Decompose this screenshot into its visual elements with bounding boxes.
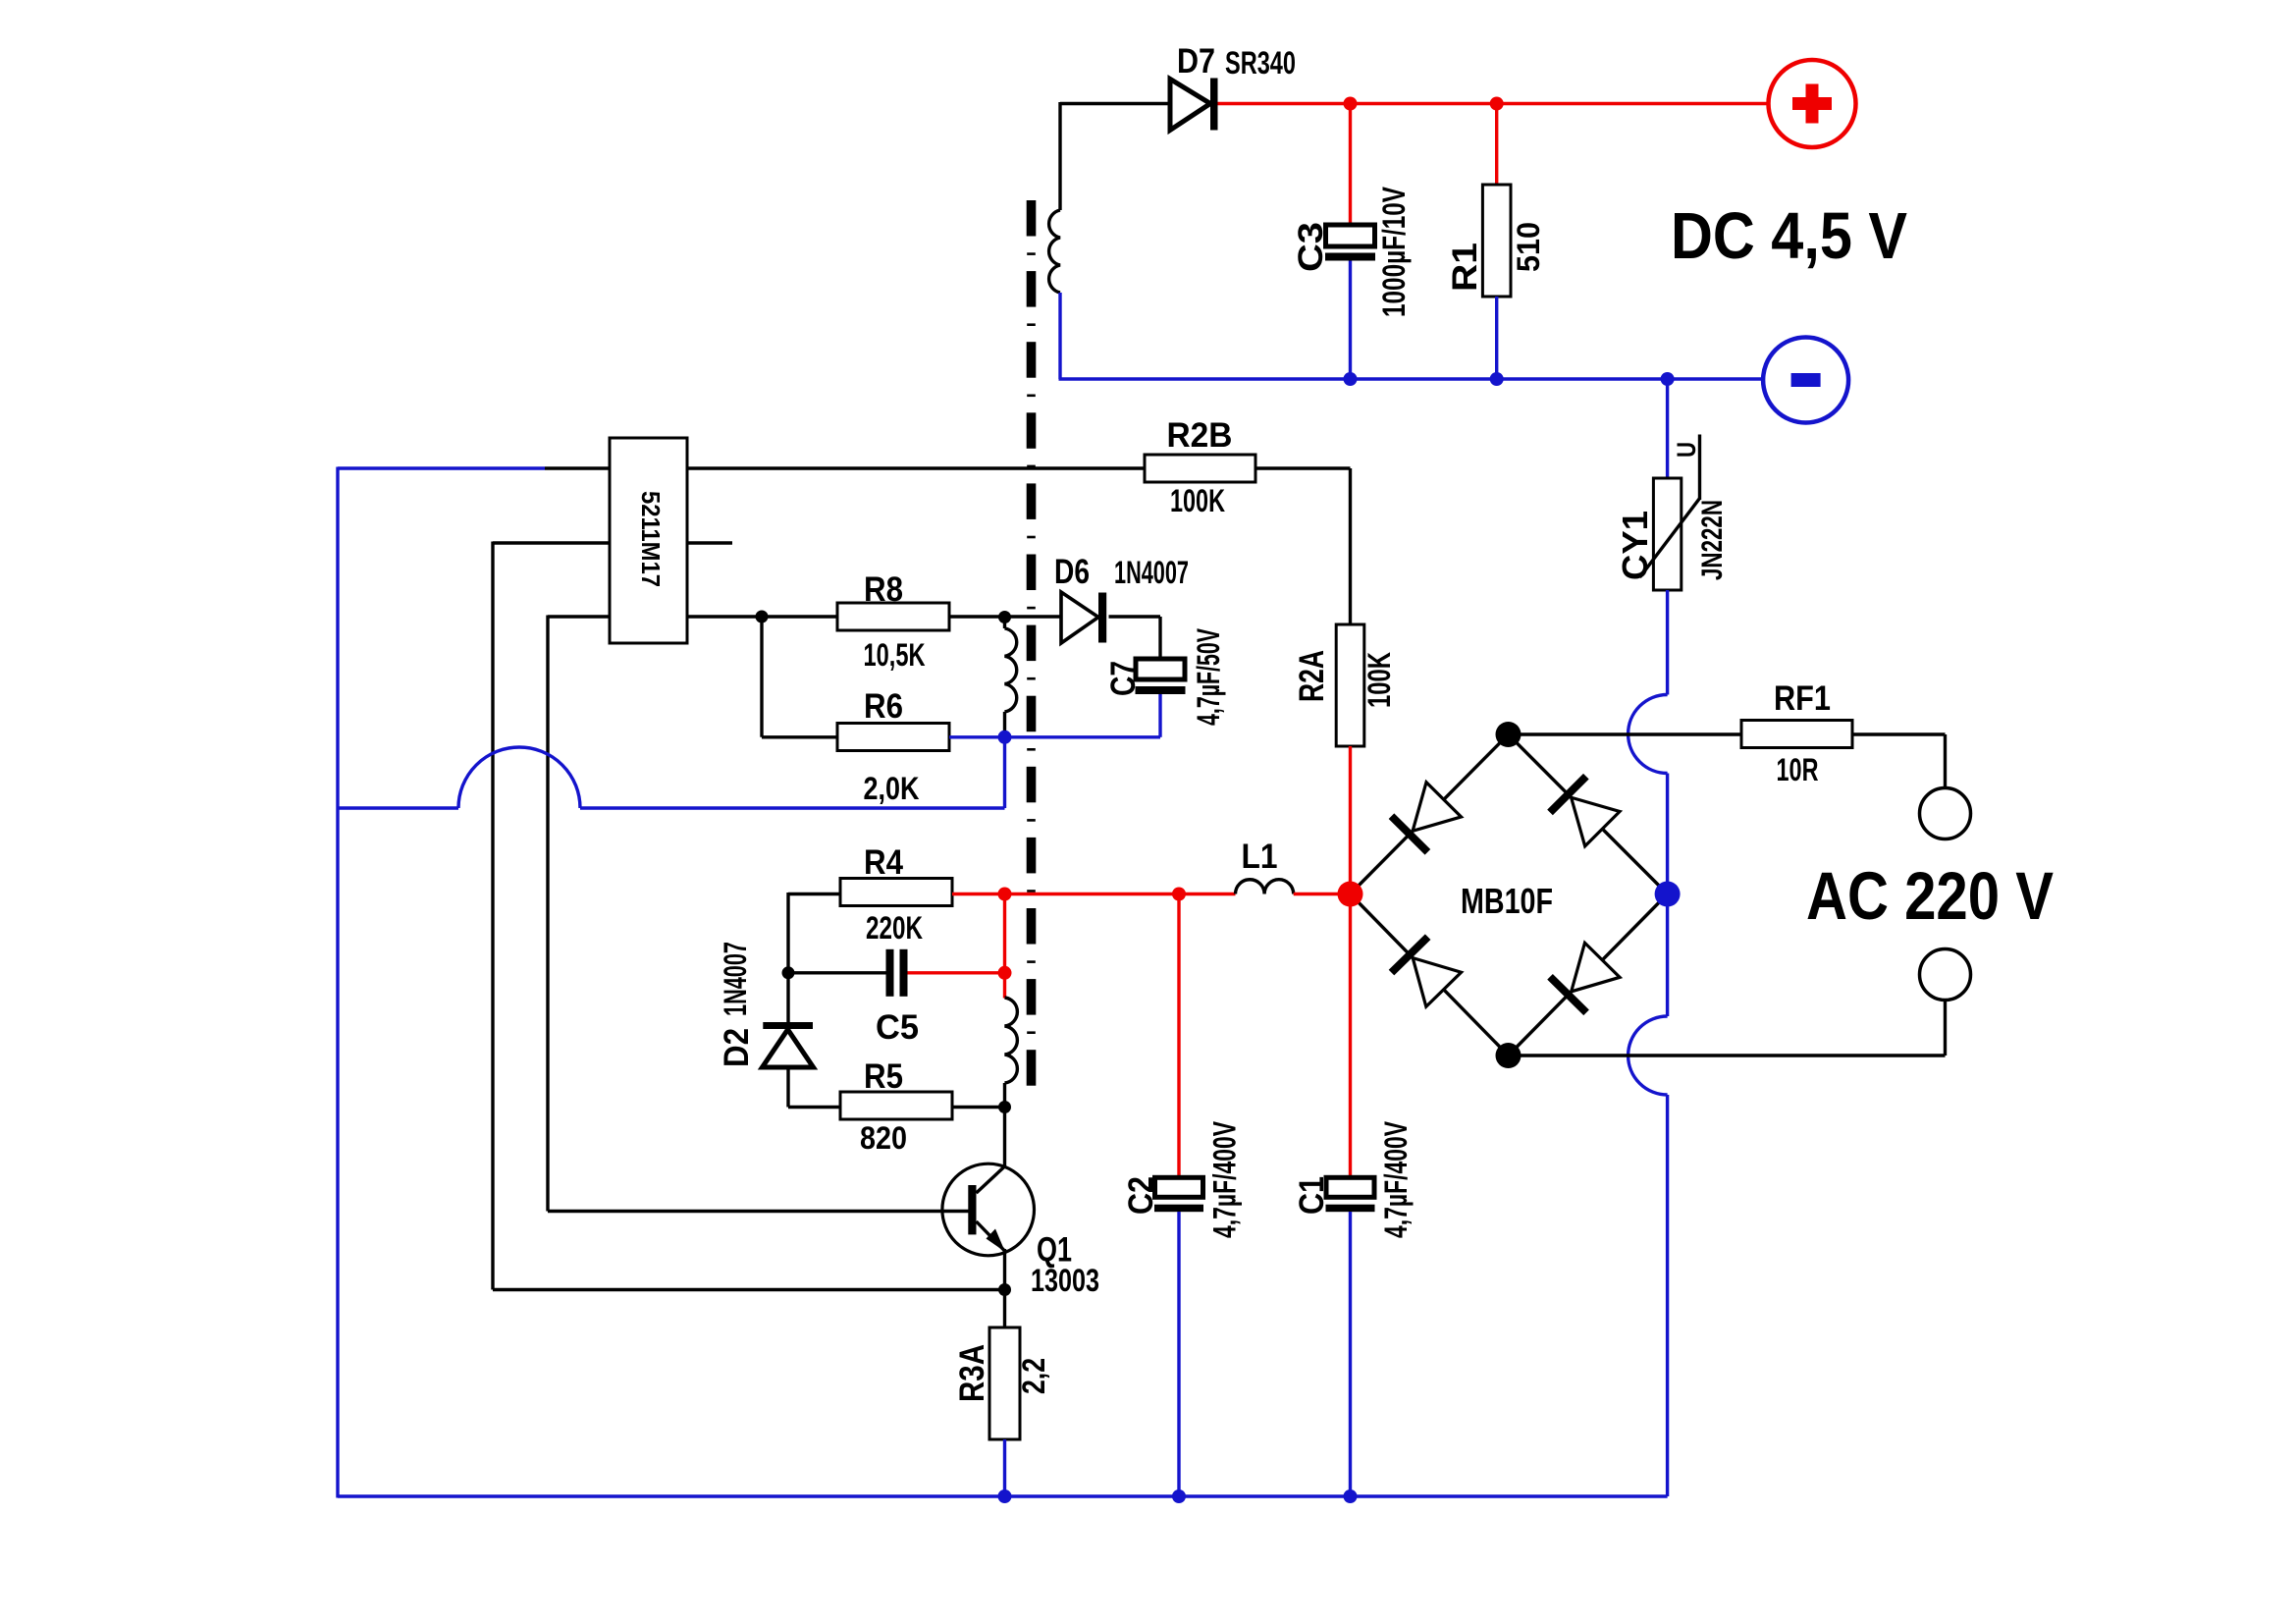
- value SR340: [1225, 45, 1296, 81]
- wire: RF1 to AC upper terminal (black): [1852, 734, 1946, 788]
- value 4,7µF/400V: [1378, 1121, 1414, 1238]
- label R2B: [1167, 416, 1233, 455]
- svg-text:L1: L1: [1242, 838, 1278, 876]
- bridge diode (top-left, AC top to + left): [1391, 783, 1461, 852]
- svg-text:220K: 220K: [866, 910, 923, 946]
- wire: left bus vertical (blue): [336, 467, 339, 1498]
- label R3A: [953, 1344, 991, 1402]
- junction: primary bottom / collector node (black): [998, 1101, 1011, 1113]
- capacitor C7: [1136, 659, 1186, 694]
- label Q1: [1037, 1231, 1072, 1270]
- wire: IC pin 3 left to base loop (black): [548, 616, 610, 1212]
- junction: bridge right corner (-HV node, blue): [1655, 882, 1681, 907]
- svg-text:10R: 10R: [1777, 752, 1819, 787]
- svg-text:C7: C7: [1104, 661, 1143, 696]
- junction: R8 left node (black): [756, 611, 769, 623]
- wire: C2 node down to C2 (red): [1177, 894, 1180, 1179]
- wire: tap to primary winding (red): [1003, 973, 1006, 999]
- wire: red row to tap (red): [1003, 894, 1006, 973]
- svg-text:R3A: R3A: [953, 1344, 991, 1402]
- resistor R8: [837, 603, 949, 630]
- svg-text:13003: 13003: [1031, 1263, 1099, 1298]
- junction: minus bus / C3 (blue): [1344, 372, 1358, 386]
- wire: R2A to bridge left corner (red): [1349, 746, 1352, 894]
- svg-text:4,7µF/50V: 4,7µF/50V: [1191, 628, 1226, 726]
- wire: R8 to auxiliary winding node (black): [949, 615, 1005, 618]
- label AC 220 V: [1806, 858, 2054, 934]
- svg-text:R6: R6: [864, 687, 903, 726]
- junction: D2/C5 node (black): [782, 966, 795, 979]
- resistor R2A: [1336, 624, 1364, 746]
- junction: R6/C7/aux winding node (blue): [998, 731, 1012, 744]
- value 820: [860, 1120, 907, 1156]
- svg-text:D7: D7: [1177, 42, 1215, 81]
- svg-text:5211M17: 5211M17: [636, 491, 666, 587]
- label R4: [864, 843, 903, 882]
- svg-text:R1: R1: [1446, 243, 1484, 292]
- resistor RF1: [1741, 721, 1852, 748]
- junction: R1 top node (red): [1490, 97, 1504, 111]
- wire: +row to R1 (red): [1495, 104, 1498, 187]
- wire: +row to C3 (red): [1349, 104, 1352, 227]
- wire: R4 to primary winding node (red): [952, 893, 1005, 895]
- label U: [1672, 442, 1701, 458]
- wire: D7 cathode to + terminal (red): [1218, 102, 1770, 105]
- value 1N4007: [718, 942, 753, 1016]
- junction: bottom bus / C2 (blue): [1172, 1489, 1186, 1503]
- label D2: [718, 1028, 756, 1067]
- wire: bottom bus (blue): [338, 1494, 1668, 1497]
- svg-text:R8: R8: [864, 570, 903, 609]
- svg-text:AC 220 V: AC 220 V: [1806, 858, 2054, 934]
- wire: left bus to IC pin 1 (blue then black): [338, 466, 610, 469]
- svg-text:100K: 100K: [1170, 483, 1225, 518]
- wire: bridge right corner down to bottom bus (blue, hops over AC wire): [1629, 894, 1668, 1497]
- label R5: [864, 1057, 903, 1096]
- wire: D2 to R5 (black): [788, 1106, 840, 1109]
- label R1: [1446, 243, 1484, 292]
- wire: bridge left corner down to C1 (red): [1349, 894, 1352, 1179]
- value 10,5K: [864, 637, 926, 673]
- value 510: [1511, 222, 1546, 272]
- capacitor C3: [1325, 225, 1375, 261]
- svg-text:1000µF/10V: 1000µF/10V: [1376, 187, 1412, 317]
- junction: bridge bottom corner (AC node): [1496, 1043, 1522, 1068]
- value 220K: [866, 910, 923, 946]
- label C7: [1104, 661, 1143, 696]
- label RF1: [1774, 679, 1831, 718]
- terminal: DC + output: [1769, 60, 1856, 147]
- junction: bottom bus / R3A (blue): [998, 1489, 1012, 1503]
- svg-text:MB10F: MB10F: [1461, 881, 1553, 921]
- resistor R2B: [1145, 455, 1255, 482]
- label C3: [1292, 222, 1330, 272]
- wire: emitter node to R3A (black): [1003, 1290, 1006, 1329]
- bridge diode (bottom-left, AC bottom to + left): [1391, 937, 1461, 1006]
- IC U1 5211M17 body: [610, 438, 687, 643]
- svg-text:C2: C2: [1122, 1176, 1160, 1215]
- wire: aux node down and left to bus (blue, hops over loops): [338, 737, 1005, 808]
- wire: IC pin 3 right to R8 (black): [687, 615, 837, 618]
- terminal: AC line lower: [1920, 949, 1971, 1001]
- label DC 4,5 V: [1671, 199, 1907, 273]
- capacitor C5: [886, 949, 908, 997]
- transformer T1 core (dash-dot isolation line): [1027, 200, 1037, 1086]
- wire: D6 cathode to C7 (black): [1109, 617, 1161, 660]
- label C2: [1122, 1176, 1160, 1215]
- wire: collector node to Q1 (black): [977, 1108, 1005, 1194]
- svg-text:C1: C1: [1293, 1176, 1331, 1215]
- bridge diode (bottom-right, - right to AC bottom): [1550, 943, 1620, 1012]
- label CY1: [1615, 511, 1655, 580]
- svg-text:510: 510: [1511, 222, 1546, 272]
- svg-text:2,0K: 2,0K: [864, 771, 920, 806]
- label L1: [1242, 838, 1278, 876]
- svg-text:100K: 100K: [1362, 652, 1397, 708]
- junction: primary top node (red): [998, 888, 1012, 901]
- resistor R3A: [989, 1327, 1020, 1439]
- svg-text:1N4007: 1N4007: [1114, 555, 1189, 590]
- resistor R4: [840, 879, 952, 906]
- diode D2: [763, 1022, 814, 1108]
- wire: AC lower terminal to bridge bottom corner (black): [1509, 1001, 1946, 1056]
- svg-text:820: 820: [860, 1120, 907, 1156]
- svg-text:C3: C3: [1292, 222, 1330, 272]
- label R2A: [1293, 650, 1331, 702]
- wire: node to C5 left plate (black): [788, 971, 886, 974]
- svg-text:DC 4,5 V: DC 4,5 V: [1671, 199, 1907, 273]
- svg-text:4,7µF/400V: 4,7µF/400V: [1207, 1121, 1243, 1238]
- wire: IC pin 2 left to emitter loop (black): [493, 542, 610, 1290]
- junction: minus bus / CY1 (blue): [1661, 372, 1675, 386]
- svg-text:D6: D6: [1054, 553, 1090, 591]
- label C1: [1293, 1176, 1331, 1215]
- terminal: AC line upper: [1920, 788, 1971, 839]
- label C5: [876, 1008, 919, 1047]
- value 4,7µF/400V: [1207, 1121, 1243, 1238]
- svg-text:2,2: 2,2: [1016, 1358, 1051, 1394]
- transistor Q1: [942, 1164, 1035, 1289]
- label MB10F: [1461, 881, 1553, 921]
- junction: emitter / R3A node (black): [998, 1283, 1011, 1296]
- junction: C2 top node (red): [1172, 888, 1186, 901]
- junction: C3 top node (red): [1344, 97, 1358, 111]
- wire: C3 bottom to minus bus (blue): [1349, 261, 1352, 380]
- junction: primary winding tap (red): [998, 966, 1012, 980]
- value 4,7µF/50V: [1191, 628, 1226, 726]
- wire: C7 bottom to R6 node (blue): [1005, 694, 1161, 737]
- transformer T1 secondary winding: [1049, 210, 1060, 293]
- wire: R8 node down to R6 (black): [762, 617, 837, 737]
- value 1N4007: [1114, 555, 1189, 590]
- transformer T1 auxiliary winding: [1005, 617, 1017, 737]
- wire: minus bus to CY1 (blue): [1666, 379, 1669, 480]
- junction: bottom bus / C1 (blue): [1344, 1489, 1358, 1503]
- bridge rectifier MB10F edge wires: [1351, 734, 1668, 1056]
- wire: IC pin 1 to R2B (black): [687, 466, 1145, 469]
- svg-text:CY1: CY1: [1615, 511, 1655, 580]
- wire: Q1 base wire (black): [548, 1210, 970, 1213]
- svg-text:10,5K: 10,5K: [864, 637, 926, 673]
- svg-text:R2B: R2B: [1167, 416, 1233, 455]
- value 100K: [1170, 483, 1225, 518]
- svg-text:C5: C5: [876, 1008, 919, 1047]
- value 1000µF/10V: [1376, 187, 1412, 317]
- junction: minus bus / R1 (blue): [1490, 372, 1504, 386]
- terminal: DC - output: [1763, 338, 1848, 423]
- label D7: [1177, 42, 1215, 81]
- wire: C5 right plate to primary node (red): [908, 971, 1005, 974]
- junction: bridge left corner (+HV node, red): [1338, 882, 1363, 907]
- IC U1 label 5211M17: [636, 491, 666, 587]
- wire: R6 right to C7 node (blue): [949, 735, 1005, 738]
- wire: C1 bottom to bus (blue): [1349, 1212, 1352, 1496]
- svg-text:RF1: RF1: [1774, 679, 1831, 718]
- wire: IC pin 2 stub right (black): [687, 541, 732, 544]
- svg-text:R5: R5: [864, 1057, 903, 1096]
- wire: CY1 to bridge right corner (blue, hops over RF1 wire): [1629, 590, 1668, 894]
- varistor CY1: [1640, 435, 1700, 591]
- diode D6: [1061, 592, 1106, 643]
- value 2,0K: [864, 771, 920, 806]
- inductor L1: [1236, 880, 1294, 894]
- wire: L1 to bridge left corner (red): [1294, 893, 1351, 895]
- wire: R1 bottom to minus bus (blue): [1495, 297, 1498, 379]
- value 10R: [1777, 752, 1819, 787]
- wire: bridge top corner to RF1 (black): [1509, 732, 1742, 735]
- svg-text:SR340: SR340: [1225, 45, 1296, 81]
- label R6: [864, 687, 903, 726]
- diode D7: [1170, 79, 1218, 131]
- value 100K: [1362, 652, 1397, 708]
- svg-text:4,7µF/400V: 4,7µF/400V: [1378, 1121, 1414, 1238]
- wire: R4 left to D2 node (black): [788, 893, 840, 973]
- wire: C2 bottom to bus (blue): [1177, 1212, 1180, 1496]
- transformer T1 primary winding: [1005, 998, 1018, 1108]
- svg-text:JN222N: JN222N: [1696, 500, 1729, 580]
- svg-text:U: U: [1672, 442, 1701, 458]
- svg-text:D2: D2: [718, 1028, 756, 1067]
- wire: primary node to L1 (red): [1005, 893, 1236, 895]
- wire: D2 node down to D2 (black): [786, 973, 789, 1023]
- label D6: [1054, 553, 1090, 591]
- svg-text:R4: R4: [864, 843, 903, 882]
- wire: transformer secondary top to D7 anode (black): [1060, 102, 1170, 210]
- value JN222N: [1696, 500, 1729, 580]
- capacitor C2: [1154, 1177, 1203, 1212]
- wire: R2B to R2A (black): [1255, 468, 1351, 625]
- capacitor C1: [1326, 1177, 1375, 1212]
- label R8: [864, 570, 903, 609]
- svg-text:R2A: R2A: [1293, 650, 1331, 702]
- wire: R3A to bottom bus (blue): [1003, 1439, 1006, 1496]
- resistor R6: [837, 724, 949, 751]
- junction: bridge top corner (AC node): [1496, 722, 1522, 747]
- value 13003: [1031, 1263, 1099, 1298]
- bridge diode (top-right, - right to AC top): [1550, 777, 1620, 846]
- svg-text:1N4007: 1N4007: [718, 942, 753, 1016]
- wire: R5 to Q1 collector node (black): [952, 1106, 1005, 1109]
- value 2,2: [1016, 1358, 1051, 1394]
- junction: auxiliary winding top node (black): [998, 611, 1011, 623]
- wire: node to D6 anode (black): [1005, 615, 1061, 618]
- wire: emitter row to IC loop (black): [493, 1288, 1005, 1291]
- wire: transformer secondary bottom to minus bus (blue): [1059, 293, 1764, 379]
- resistor R1: [1482, 185, 1511, 297]
- resistor R5: [840, 1092, 952, 1119]
